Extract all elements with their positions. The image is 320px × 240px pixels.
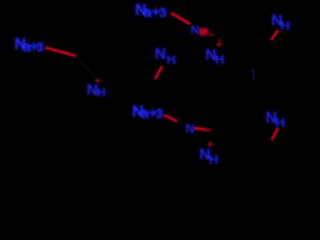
svg-text:3: 3 — [156, 106, 163, 121]
label NH3+ bottom middle (node N3) — [132, 104, 163, 123]
node NH2 top right — [271, 13, 290, 34]
wire red bond from N3 down-right — [164, 115, 177, 122]
wire red bond below top-right N — [271, 30, 278, 40]
label NH3+ top middle (node N2) — [135, 2, 166, 21]
svg-text:H: H — [209, 152, 218, 167]
svg-text:H: H — [281, 18, 290, 33]
svg-text:N: N — [191, 23, 200, 37]
wire red bond from N1 — [45, 48, 76, 57]
node N blue square with red O streak (top) — [191, 23, 215, 37]
wire dark carbon bond left chain — [76, 56, 96, 79]
node NH middle-left cluster — [155, 46, 176, 67]
svg-text:N: N — [155, 46, 167, 63]
wire faint blue fragment right middle — [253, 69, 254, 80]
node NH2+ middle cluster under O — [205, 38, 224, 68]
svg-text:H: H — [167, 52, 176, 67]
svg-text:3: 3 — [36, 40, 43, 55]
wire red bond from N2 down-right — [171, 13, 190, 24]
node NH2+ lower-left cluster — [87, 76, 106, 100]
svg-text:H: H — [215, 52, 224, 67]
node N blue square with red O streak (bottom) — [186, 122, 213, 136]
node NH2+ bottom cluster — [199, 139, 218, 167]
wire red bond below NH cluster — [155, 66, 162, 79]
wire red bond below bottom-right N — [272, 128, 279, 140]
node NH2 bottom right — [266, 110, 285, 130]
svg-text:3: 3 — [159, 5, 166, 20]
label NH3+ left (node N1) — [15, 36, 44, 56]
svg-text:H: H — [97, 86, 106, 100]
svg-text:N: N — [186, 122, 195, 136]
